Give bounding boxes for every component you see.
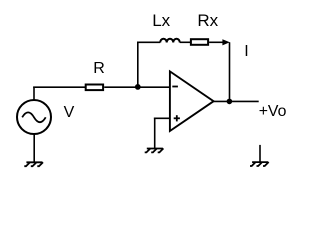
inductor Lx: [160, 39, 180, 43]
wire feedback right vertical: [229, 42, 231, 101]
wire source top to main wire: [33, 87, 35, 101]
svg-text:Lx: Lx: [152, 11, 170, 30]
svg-text:+Vo: +Vo: [259, 103, 287, 120]
wire R to op-amp minus input: [104, 86, 170, 88]
svg-text:Rx: Rx: [197, 11, 218, 30]
wire reference ground stub: [259, 145, 261, 162]
wire inductor to Rx: [180, 41, 191, 43]
resistor Rx: [191, 39, 208, 45]
voltage source V1: [17, 100, 51, 134]
node output dot: [227, 99, 233, 105]
current arrow I: [222, 39, 229, 45]
svg-text:I: I: [244, 43, 248, 60]
minus sign: [172, 86, 178, 88]
wire main left segment: [33, 86, 85, 88]
svg-text:R: R: [93, 60, 105, 77]
wire source bottom: [33, 134, 35, 162]
wire output: [214, 100, 259, 102]
resistor R: [86, 85, 103, 91]
ground (source): [24, 162, 43, 166]
ground (plus input): [145, 148, 164, 152]
wire plus input vertical: [154, 118, 156, 149]
plus sign: [174, 115, 180, 121]
node A junction dot: [135, 84, 141, 90]
svg-text:V: V: [64, 104, 75, 121]
op-amp U1: [170, 71, 214, 131]
wire feedback left vertical: [137, 42, 139, 88]
wire plus input horizontal: [154, 117, 170, 119]
wire feedback top left segment: [137, 41, 160, 43]
wire Rx to corner: [209, 41, 224, 43]
ground (reference, bottom right): [250, 162, 269, 166]
